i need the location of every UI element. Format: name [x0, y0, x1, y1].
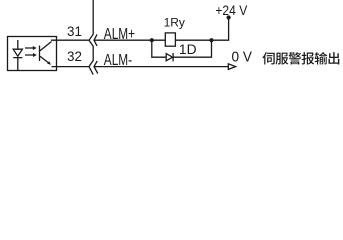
svg-text:0 V: 0 V — [232, 48, 253, 64]
svg-text:ALM+: ALM+ — [104, 24, 135, 42]
svg-text:1D: 1D — [179, 42, 197, 57]
svg-text:32: 32 — [67, 49, 82, 64]
svg-text:1Ry: 1Ry — [164, 16, 185, 30]
svg-text:ALM-: ALM- — [104, 50, 133, 68]
svg-text:+24 V: +24 V — [215, 2, 247, 18]
svg-text:31: 31 — [67, 24, 82, 39]
